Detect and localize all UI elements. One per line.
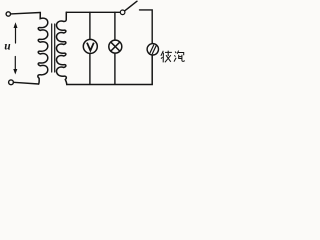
switch contact circle: [120, 10, 125, 15]
lamp L (right branch): [147, 44, 158, 55]
wire bottom-left to transformer primary: [14, 82, 39, 84]
lamp branch wire bottom: [114, 53, 116, 84]
top rail right of switch: [140, 10, 153, 44]
voltage arrow down: [13, 57, 17, 75]
lamp branch wire top: [114, 12, 116, 40]
switch blade: [125, 1, 137, 11]
transformer primary winding: [38, 13, 48, 85]
terminal bottom-left: [9, 80, 14, 85]
voltmeter branch wire top: [89, 12, 91, 39]
transformer secondary winding: [56, 12, 66, 84]
transformer core: [52, 24, 55, 72]
top rail: [66, 11, 120, 13]
voltmeter branch wire bottom: [89, 54, 91, 85]
label character 1 (bulb): [161, 51, 172, 63]
svg-text:u: u: [4, 41, 11, 53]
label character 2 (bulb): [174, 51, 185, 62]
wire below lamp + bottom rail: [67, 55, 152, 85]
wire top-left to transformer primary: [11, 13, 41, 14]
lamp X symbol: [109, 40, 122, 53]
voltage arrow up: [14, 22, 18, 43]
voltmeter V: [83, 39, 97, 53]
terminal top-left: [6, 12, 10, 16]
